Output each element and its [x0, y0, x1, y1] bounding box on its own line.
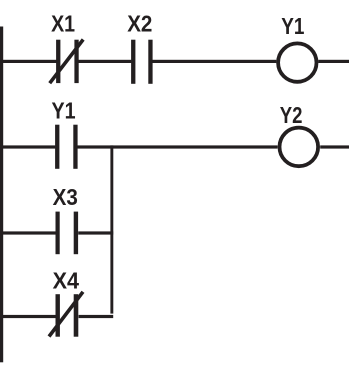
svg-text:Y1: Y1: [52, 97, 76, 123]
wire X4 branch rail to X4: [0, 315, 56, 318]
wire X4 to branch vertical: [79, 315, 114, 318]
svg-text:X4: X4: [53, 267, 80, 293]
contact X3 (normally open): [56, 212, 79, 255]
wire coil Y2 to right edge: [320, 145, 349, 148]
wire coil Y1 to right edge: [318, 60, 349, 63]
wire X3 branch rail to X3: [0, 231, 56, 234]
wire rung2 rail to contact Y1: [0, 145, 55, 148]
wire contact Y1 to coil Y2: [78, 145, 278, 148]
contact X1 (normally closed): [50, 40, 83, 84]
contact Y1 (normally open): [55, 125, 78, 169]
coil Y1: [278, 43, 316, 81]
svg-text:X2: X2: [127, 10, 152, 36]
contact X2 (normally open): [131, 40, 153, 84]
wire X3 to branch vertical: [78, 231, 113, 234]
branch vertical wire: [110, 145, 113, 313]
svg-text:X3: X3: [53, 184, 78, 210]
contact X4 (normally closed): [49, 292, 83, 337]
svg-text:Y1: Y1: [281, 13, 304, 39]
left power rail: [0, 27, 3, 363]
wire X1 to X2: [78, 60, 131, 63]
wire rung1 rail to X1: [0, 60, 57, 63]
wire X2 to coil Y1: [152, 60, 276, 63]
svg-text:Y2: Y2: [280, 102, 303, 128]
svg-text:X1: X1: [51, 10, 75, 36]
coil Y2: [280, 128, 319, 167]
